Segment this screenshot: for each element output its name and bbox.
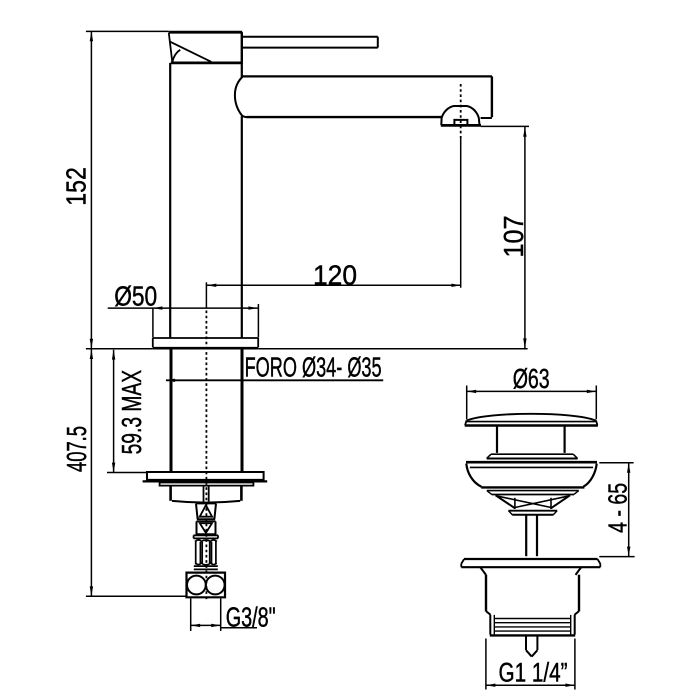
drain cap neck [497,426,565,453]
braided hose strands [196,541,216,565]
drain cap O63 [465,414,598,426]
faucet head (cartridge housing) [169,32,243,63]
aerator housing on spout end [441,106,481,125]
neck flange ring [487,454,578,458]
tailpiece body shoulders [480,567,581,575]
dimension O50 [108,280,259,337]
hose bottom scallops [195,563,216,565]
dimension 407.5 [61,349,187,596]
deck collar ring O50 [153,338,258,348]
dimension 59.3 MAX [107,350,147,473]
handle lever bar [242,37,378,48]
svg-text:59.3 MAX: 59.3 MAX [116,370,147,455]
base plate lower ring [160,483,254,486]
deck level extension line right [258,348,527,350]
svg-text:152: 152 [61,167,92,206]
drain bottom tip [526,635,537,656]
dimension 4 - 65 [599,463,634,557]
mounting base plate upper [147,472,264,480]
deck level extension line left [86,348,153,350]
dimension G1 1/4 [486,639,575,690]
svg-text:120: 120 [313,260,357,291]
dimension O63 [467,363,597,419]
supply pipe through nut [204,486,209,502]
dimension 120 [207,260,461,291]
check valve lower box [196,521,216,534]
hose nuts block [187,573,226,598]
FORO hole label and leader [166,351,384,382]
faucet body column above deck [170,63,242,338]
tailpiece body [486,575,579,612]
svg-text:FORO Ø34- Ø35: FORO Ø34- Ø35 [245,351,382,382]
drain basket with cross [496,495,570,515]
svg-text:G1 1/4”: G1 1/4” [499,657,568,687]
drain stem [526,515,537,556]
faucet centerline [205,282,207,599]
hose end band [194,566,218,569]
aerator centerline [460,84,462,288]
hose nut circle left G3/8 [187,576,206,595]
check valve upper box [196,504,216,520]
svg-text:Ø63: Ø63 [513,363,550,394]
tailpiece top plate [461,559,600,567]
mounting nut [171,486,242,503]
dimension 152 [61,31,169,348]
braided hose scallops [195,540,217,542]
svg-text:407.5: 407.5 [61,426,92,472]
svg-text:4 - 65: 4 - 65 [605,483,633,533]
svg-text:107: 107 [498,216,529,258]
tailpiece taper step [486,611,579,615]
spout [235,76,492,118]
dimension 107 [481,126,529,348]
threaded section G1 1/4 [490,615,575,636]
rubber seal washer [466,462,597,494]
dimension G3/8 [191,599,276,633]
svg-text:Ø50: Ø50 [114,280,157,311]
threaded shank tube below deck [171,349,242,472]
base plate lip flange [143,480,268,482]
svg-text:G3/8": G3/8" [226,602,276,633]
hose ferrule collar [194,535,219,538]
hose nut circle right G3/8 [206,576,225,595]
